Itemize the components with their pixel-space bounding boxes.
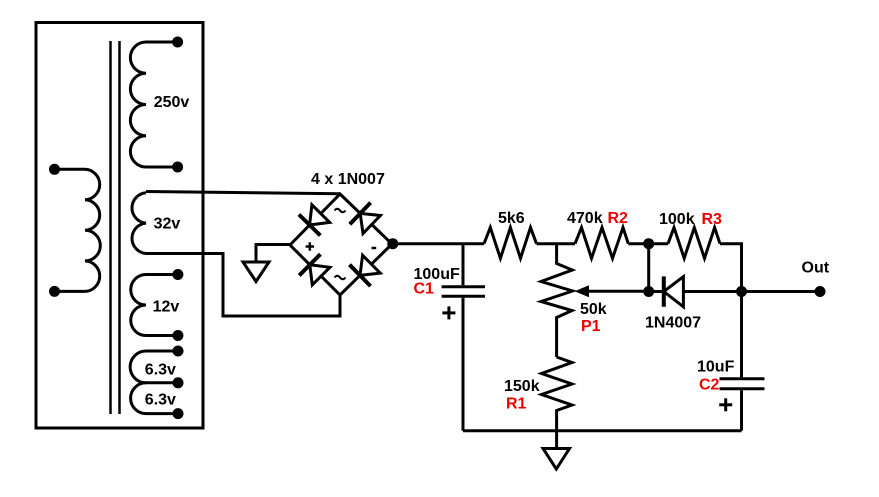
diode 1N4007 triangle bbox=[664, 277, 684, 307]
250v terminal top bbox=[172, 37, 183, 48]
capacitor C1 bottom lead bbox=[462, 298, 465, 431]
wire 5k6 to R2 bbox=[537, 242, 576, 245]
svg-text:C1: C1 bbox=[414, 281, 435, 298]
diode D1 top-left cathode bar bbox=[299, 215, 320, 236]
svg-text:32v: 32v bbox=[154, 216, 181, 233]
svg-text:R1: R1 bbox=[506, 396, 527, 413]
250v terminal bottom bbox=[172, 162, 183, 173]
resistor 5k6 bbox=[484, 228, 537, 259]
diode 1N4007 cathode bar bbox=[662, 276, 666, 306]
capacitor C1 plates bbox=[442, 287, 485, 297]
svg-text:5k6: 5k6 bbox=[498, 210, 525, 227]
12v terminal top bbox=[172, 269, 183, 280]
diode D3 bottom-left triangle bbox=[310, 265, 330, 285]
node P1 wiper / diode junction bbox=[643, 286, 654, 297]
svg-text:50k: 50k bbox=[580, 301, 607, 318]
wire bridge output to 5k6 bbox=[392, 242, 484, 245]
primary winding bbox=[55, 169, 101, 291]
6.3v upper terminal top bbox=[173, 346, 184, 357]
svg-text:P1: P1 bbox=[581, 318, 601, 335]
svg-text:Out: Out bbox=[802, 259, 830, 276]
wire R3 to out column bbox=[720, 244, 742, 292]
secondary winding 6.3v upper bbox=[130, 351, 178, 383]
wire bottom rail bbox=[463, 429, 742, 432]
C2 plus mark bbox=[719, 398, 732, 411]
node output junction bbox=[736, 286, 747, 297]
svg-text:10uF: 10uF bbox=[697, 359, 735, 376]
wire to Out terminal bbox=[742, 290, 821, 293]
resistor R1 bbox=[542, 357, 573, 431]
capacitor C2 bottom lead bbox=[740, 390, 743, 431]
diode D2 top-right triangle bbox=[360, 213, 380, 233]
wire 32v bottom to bridge AC bottom bbox=[146, 254, 340, 317]
svg-text:12v: 12v bbox=[153, 299, 180, 316]
wire junction column bbox=[647, 244, 650, 292]
svg-text:R2: R2 bbox=[608, 210, 629, 227]
wire R2 to R3 bbox=[628, 242, 668, 245]
svg-text:6.3v: 6.3v bbox=[145, 392, 176, 409]
12v terminal bottom bbox=[172, 330, 183, 341]
capacitor C2 top lead bbox=[740, 292, 743, 378]
resistor R2 bbox=[575, 228, 628, 259]
secondary winding 12v bbox=[131, 275, 178, 336]
wire diode row bbox=[649, 290, 742, 293]
Out terminal bbox=[815, 286, 826, 297]
diode D2 top-right cathode bar bbox=[350, 203, 371, 225]
resistor R3 bbox=[668, 228, 720, 259]
svg-text:100k: 100k bbox=[659, 211, 695, 228]
svg-text:4 x 1N007: 4 x 1N007 bbox=[311, 171, 385, 188]
6.3v lower terminal bottom bbox=[173, 408, 184, 419]
svg-text:6.3v: 6.3v bbox=[145, 362, 176, 379]
bridge AC tilde bottom bbox=[335, 276, 346, 280]
ground at R1 bottom bbox=[555, 431, 558, 448]
diode D4 bottom-right triangle bbox=[360, 255, 380, 275]
svg-text:C2: C2 bbox=[699, 377, 720, 394]
ground at bridge + bbox=[256, 245, 291, 262]
svg-text:R3: R3 bbox=[702, 211, 723, 228]
diode D3 bottom-left cathode bar bbox=[299, 254, 320, 275]
secondary winding 32v bbox=[132, 193, 146, 254]
C1 plus mark bbox=[442, 306, 455, 319]
svg-text:470k: 470k bbox=[567, 210, 603, 227]
bridge plus mark bbox=[306, 242, 314, 250]
diode D4 bottom-right cathode bar bbox=[350, 265, 371, 286]
diode D1 top-left triangle bbox=[310, 205, 330, 225]
node R2/R3 junction bbox=[643, 238, 654, 249]
6.3v shared terminal bbox=[173, 377, 184, 388]
bridge AC tilde top bbox=[335, 209, 346, 213]
svg-text:250v: 250v bbox=[154, 94, 190, 111]
bridge rectifier diamond bbox=[290, 194, 392, 295]
bridge output node bbox=[387, 238, 398, 249]
secondary winding 250v bbox=[130, 42, 177, 167]
primary terminal top bbox=[49, 164, 60, 175]
transformer core bbox=[111, 41, 120, 414]
P1 wiper arrow bbox=[586, 290, 649, 293]
potentiometer P1 bbox=[541, 244, 573, 357]
primary terminal bottom bbox=[49, 286, 60, 297]
svg-text:1N4007: 1N4007 bbox=[645, 315, 701, 332]
wire 32v top to bridge AC top bbox=[146, 192, 340, 194]
transformer T1 box bbox=[36, 23, 203, 429]
capacitor C1 top lead bbox=[462, 244, 465, 286]
secondary winding 6.3v lower bbox=[131, 383, 178, 414]
bridge minus mark bbox=[372, 247, 377, 250]
svg-text:150k: 150k bbox=[504, 378, 540, 395]
capacitor C2 plates bbox=[720, 379, 765, 389]
